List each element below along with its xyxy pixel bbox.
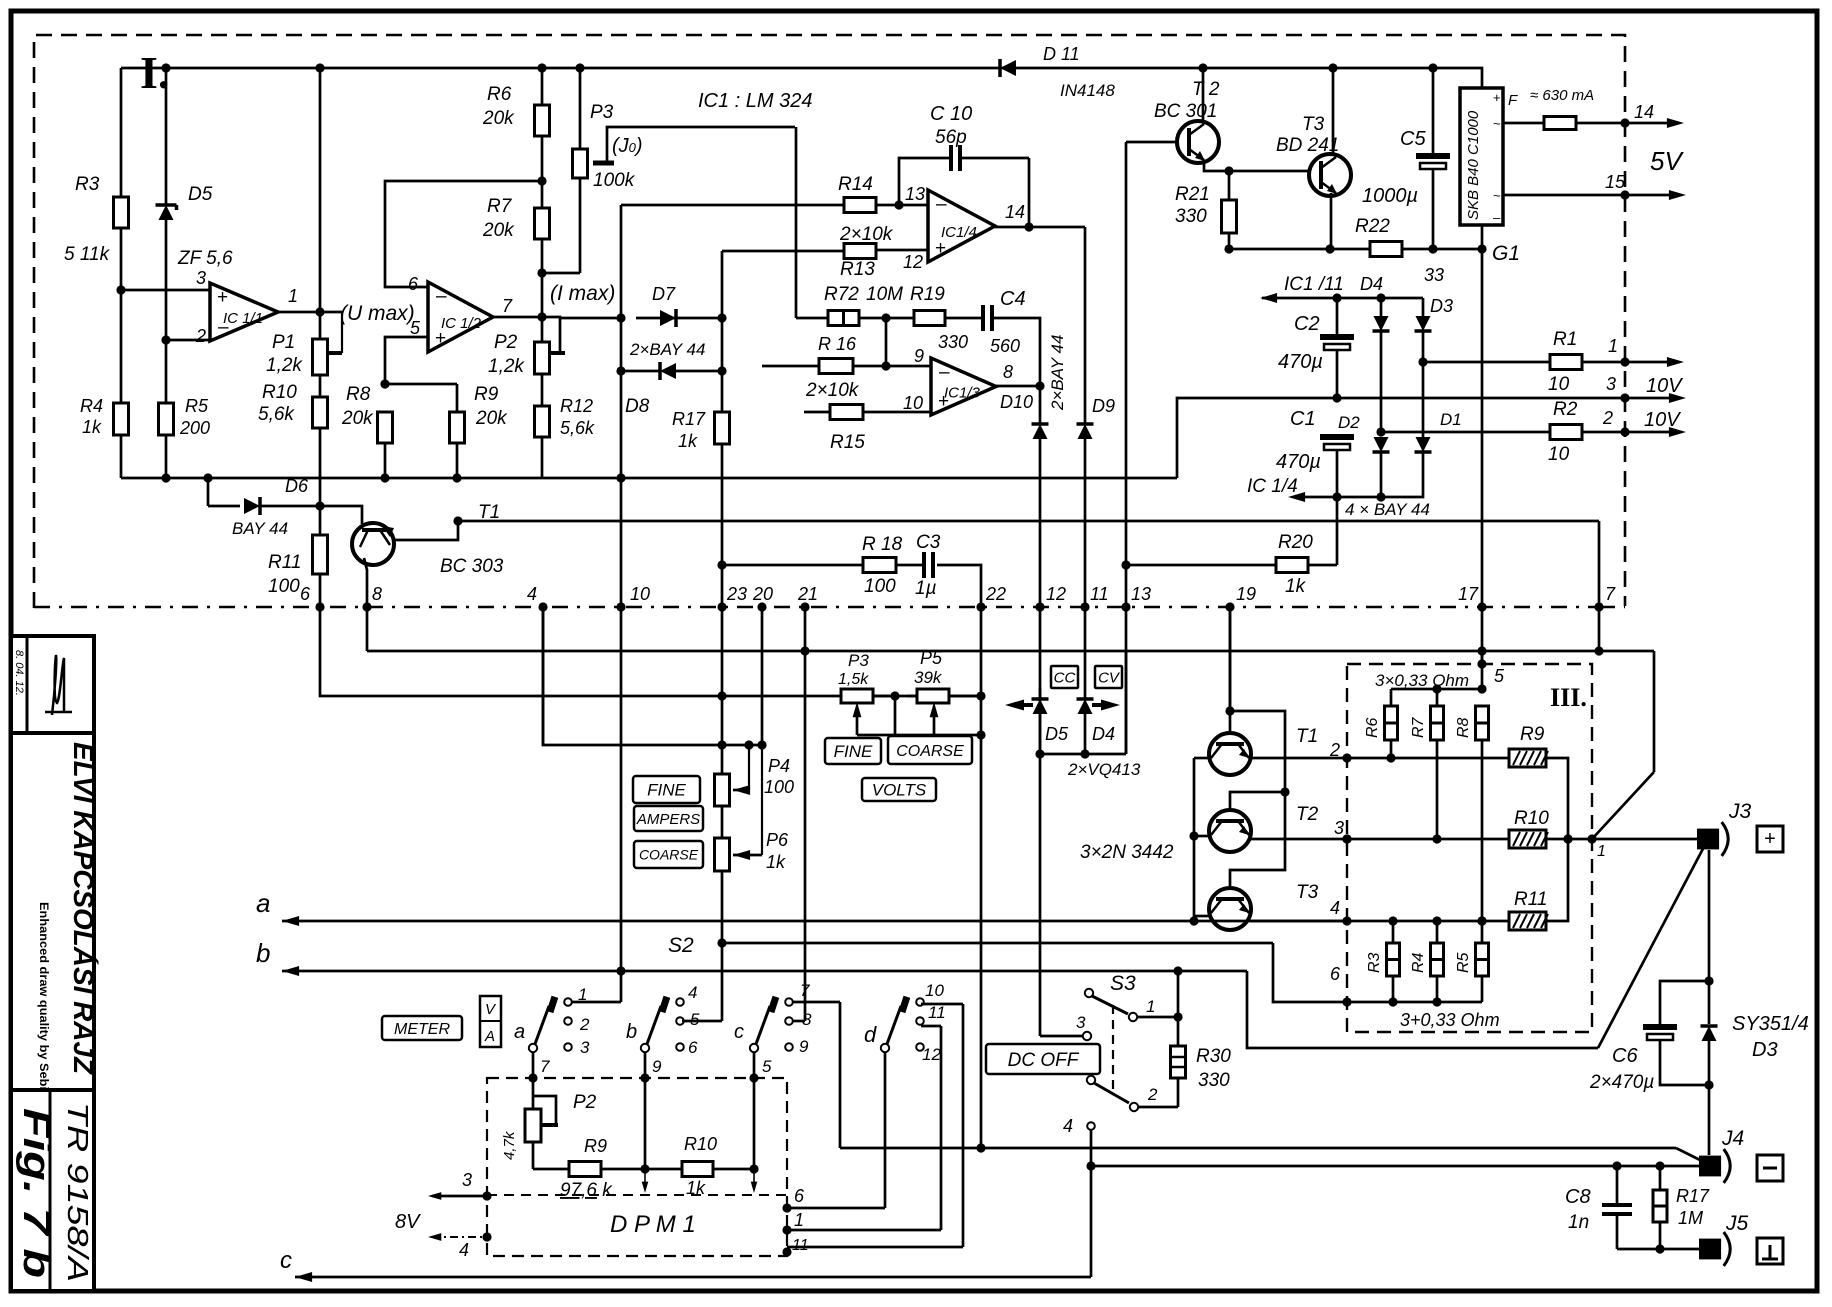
svg-text:D3: D3: [1752, 1039, 1778, 1061]
svg-text:~: ~: [1493, 116, 1501, 131]
svg-text:C1: C1: [1290, 408, 1316, 430]
svg-text:3×0,33 Ohm: 3×0,33 Ohm: [1375, 671, 1469, 690]
wire IC1/4 arrow row: [1247, 452, 1430, 519]
title text Enhanced draw quality by Sebi: [37, 902, 51, 1090]
svg-text:R7: R7: [487, 196, 513, 217]
svg-text:2×470µ: 2×470µ: [1589, 1072, 1654, 1093]
wire ground row: [121, 398, 1337, 483]
resistor R7: [482, 196, 550, 241]
wire C5 column: [1432, 68, 1435, 249]
wire S2b pole to pin9: [645, 1052, 662, 1078]
jack J3: [1697, 800, 1752, 856]
resistor R18 100: [717, 534, 924, 597]
resistor R4 033: [1410, 921, 1444, 1007]
resistor R11 hatched: [1509, 839, 1568, 930]
label CC box: [1051, 666, 1078, 688]
svg-text:1: 1: [1146, 997, 1155, 1016]
svg-text:330: 330: [1175, 206, 1207, 227]
svg-text:≈ 630 mA: ≈ 630 mA: [1530, 87, 1594, 104]
wire S2c contact8: [792, 1020, 805, 1023]
fuse F 630mA: [1508, 87, 1654, 130]
wire D8 row: [616, 366, 726, 375]
svg-text:T3: T3: [1296, 882, 1319, 903]
resistor R2 10: [1548, 399, 1681, 465]
node DPM pin11 out: [782, 1237, 808, 1257]
resistor R20 1k: [1121, 532, 1337, 597]
svg-text:R21: R21: [1175, 184, 1210, 205]
svg-text:5 11k: 5 11k: [64, 244, 111, 265]
svg-text:11: 11: [792, 1237, 809, 1254]
svg-text:13: 13: [905, 184, 925, 204]
wire R16 row: [762, 365, 931, 368]
wire base zigzag T3: [1230, 792, 1285, 899]
DPM1 dashed outline: [487, 1078, 787, 1256]
wire pin21 column: [800, 607, 809, 1021]
svg-text:P3: P3: [590, 102, 614, 123]
svg-text:22: 22: [985, 584, 1006, 604]
svg-text:11: 11: [1090, 584, 1109, 604]
op-amp IC1/3: [903, 346, 1013, 415]
label FINE box: [633, 776, 700, 803]
svg-text:IC 1/4: IC 1/4: [1247, 476, 1298, 497]
wire b to J3 bottom: [1247, 971, 1598, 1048]
svg-text:VOLTS: VOLTS: [872, 781, 927, 800]
wire S2d pole to DPM pin6: [884, 1052, 887, 1208]
node DPM pin7: [528, 1073, 537, 1082]
svg-text:J3: J3: [1728, 800, 1752, 823]
svg-text:1: 1: [794, 1210, 804, 1230]
node DPM pin6 out: [782, 1186, 885, 1213]
board I pin 10: [616, 584, 650, 612]
label COARSE box: [634, 841, 703, 868]
wire J5 row: [1617, 1244, 1702, 1253]
svg-text:6: 6: [794, 1186, 805, 1206]
svg-text:R10: R10: [262, 382, 297, 403]
board I pin 8: [362, 584, 382, 612]
svg-text:C2: C2: [1294, 313, 1320, 335]
svg-text:–: –: [436, 286, 447, 307]
resistor R72 10M: [796, 284, 903, 326]
svg-text:–: –: [1493, 210, 1501, 225]
resistor R22: [1355, 216, 1444, 285]
svg-text:1,2k: 1,2k: [266, 355, 303, 376]
svg-text:IN4148: IN4148: [1060, 81, 1115, 100]
label ground box: [1757, 1238, 1783, 1264]
svg-text:10: 10: [630, 584, 650, 604]
wire pin10 column: [616, 607, 625, 976]
label IC1 = LM324: [698, 90, 813, 112]
wire IC1/2 plus input: [380, 337, 428, 389]
svg-text:4: 4: [527, 584, 537, 604]
svg-text:20k: 20k: [475, 408, 508, 429]
svg-text:2: 2: [195, 326, 206, 346]
svg-text:R20: R20: [1278, 532, 1313, 553]
wire J3 row: [1563, 834, 1700, 860]
svg-text:d: d: [864, 1022, 877, 1047]
svg-text:TR 9158/A: TR 9158/A: [61, 1102, 93, 1282]
svg-text:c: c: [280, 1247, 292, 1274]
wire R2 row: [1381, 427, 1686, 437]
svg-text:20k: 20k: [482, 108, 515, 129]
svg-text:2×10k: 2×10k: [839, 224, 894, 245]
transistor T2 BC301: [1154, 79, 1220, 163]
svg-text:5V: 5V: [1650, 146, 1684, 176]
wire node5 into box: [1477, 651, 1486, 689]
wire D9 down: [1084, 439, 1087, 607]
wire pin20 column: [757, 607, 766, 750]
svg-text:33: 33: [1424, 265, 1444, 285]
wire row 15: [1503, 172, 1686, 200]
svg-text:R22: R22: [1355, 216, 1390, 237]
wire T1 collector to pin8: [364, 558, 367, 607]
svg-text:3: 3: [1076, 1013, 1086, 1032]
diode D5 CC: [1005, 688, 1069, 759]
wire pin13 column: [1125, 565, 1128, 754]
label 2xBAY44 vertical: [1048, 335, 1067, 411]
svg-text:T3: T3: [1302, 114, 1325, 135]
wire row b: [256, 938, 1247, 976]
svg-text:2: 2: [579, 1015, 590, 1034]
svg-text:1k: 1k: [82, 417, 102, 437]
svg-text:7: 7: [502, 296, 513, 316]
svg-text:R3: R3: [75, 174, 100, 195]
wire R11 row: [1347, 916, 1509, 925]
svg-text:1k: 1k: [686, 1178, 706, 1198]
wire IC1/2 output: [493, 317, 565, 353]
svg-text:b: b: [256, 938, 270, 968]
svg-text:AMPERS: AMPERS: [636, 811, 700, 828]
diode D3 SY351/4: [1701, 1013, 1809, 1155]
svg-text:1,5k: 1,5k: [838, 671, 869, 688]
op-amp IC1/4: [903, 184, 1025, 272]
svg-text:100: 100: [764, 777, 794, 797]
svg-text:56p: 56p: [935, 127, 967, 148]
svg-text:2×10k: 2×10k: [805, 380, 860, 401]
svg-text:14: 14: [1005, 202, 1025, 222]
label S2: [668, 934, 694, 957]
svg-text:METER: METER: [394, 1021, 450, 1038]
wire C1 to R20: [1336, 497, 1339, 565]
svg-text:12: 12: [903, 252, 923, 272]
resistor R8 033: [1455, 706, 1489, 926]
label minus box: [1757, 1155, 1783, 1181]
svg-text:a: a: [514, 1021, 525, 1043]
svg-text:C4: C4: [1000, 288, 1026, 310]
board III label: [1550, 683, 1587, 712]
svg-text:2: 2: [1329, 740, 1340, 760]
svg-text:8. 04. 12.: 8. 04. 12.: [13, 650, 25, 696]
wire S3 pin3: [1040, 688, 1091, 1040]
wire top bus: [121, 63, 1482, 88]
label plus box: [1757, 826, 1783, 852]
svg-text:P2: P2: [494, 332, 518, 353]
svg-text:1000µ: 1000µ: [1362, 185, 1418, 207]
wire pin22 column: [937, 565, 986, 1153]
wire T2 base: [1126, 142, 1177, 565]
resistor R5 033: [1455, 921, 1489, 1002]
svg-text:+: +: [1764, 828, 1776, 850]
svg-text:17: 17: [1458, 584, 1479, 604]
svg-text:19: 19: [1236, 584, 1256, 604]
wire S3 pin2: [1138, 1078, 1178, 1107]
svg-text:ZF 5,6: ZF 5,6: [177, 248, 233, 269]
resistor R15: [830, 405, 865, 454]
svg-text:1n: 1n: [1568, 1212, 1589, 1233]
svg-text:IC 1/1: IC 1/1: [223, 310, 263, 327]
svg-text:330: 330: [1198, 1070, 1230, 1091]
svg-text:12: 12: [922, 1045, 941, 1064]
svg-text:2×BAY 44: 2×BAY 44: [1048, 335, 1067, 411]
wire T2 emitter row 3: [1251, 818, 1352, 844]
svg-text:100: 100: [268, 576, 300, 597]
svg-text:R9: R9: [584, 1136, 607, 1156]
wire x722 column: [721, 318, 724, 412]
wire J3 funnel upper: [1592, 651, 1654, 839]
capacitor C3 1u: [915, 532, 941, 599]
resistor R17 1M: [1653, 1166, 1710, 1249]
wire S2c contact7: [792, 1002, 981, 1148]
wire x620 column: [620, 318, 623, 607]
label G1: [1492, 242, 1520, 265]
svg-text:330: 330: [938, 332, 968, 352]
svg-text:20k: 20k: [341, 408, 374, 429]
svg-text:R11: R11: [268, 552, 301, 573]
label 3plus033ohm: [1400, 1010, 1500, 1030]
svg-text:R8: R8: [346, 384, 371, 405]
node DPM pin1 out: [782, 1210, 804, 1235]
diode D1: [1415, 410, 1462, 452]
svg-text:3: 3: [196, 268, 206, 288]
svg-text:6: 6: [408, 274, 419, 294]
svg-text:1: 1: [1608, 336, 1618, 356]
wire T3 emitter: [1325, 193, 1334, 254]
svg-text:DC OFF: DC OFF: [1008, 1050, 1080, 1071]
svg-text:F: F: [1508, 92, 1518, 109]
svg-text:20: 20: [752, 584, 773, 604]
svg-text:13: 13: [1131, 584, 1151, 604]
svg-text:P1: P1: [272, 332, 295, 353]
svg-text:C3: C3: [916, 532, 941, 553]
svg-text:Enhanced draw quality by Sebi: Enhanced draw quality by Sebi: [37, 902, 51, 1090]
wire IC1/3 output: [996, 381, 1045, 390]
title block date text: [13, 650, 25, 696]
capacitor C2 470u: [1278, 298, 1354, 398]
svg-text:S2: S2: [668, 934, 694, 957]
label DC OFF box: [986, 1044, 1100, 1074]
svg-text:Fig. 7 b: Fig. 7 b: [15, 1108, 57, 1278]
wire T3 emitter row 4: [1251, 898, 1352, 926]
diode D9: [1077, 396, 1116, 439]
svg-text:4: 4: [1063, 1116, 1073, 1136]
svg-text:P4: P4: [768, 756, 790, 776]
wire R6R7 column: [537, 68, 546, 342]
svg-text:SKB B40 C1000: SKB B40 C1000: [1465, 110, 1482, 220]
wire pin17 column: [1481, 249, 1484, 664]
switch S2a: [514, 985, 590, 1057]
svg-text:c: c: [734, 1021, 744, 1043]
svg-text:R7: R7: [1410, 716, 1427, 738]
wire T1 emitter to row: [392, 516, 463, 540]
resistor R16: [818, 334, 857, 374]
svg-text:b: b: [626, 1021, 637, 1043]
svg-text:D4: D4: [1360, 274, 1383, 294]
svg-text:A: A: [484, 1028, 495, 1045]
wire IC1/3 minus link: [881, 318, 890, 371]
wire volts row: [873, 691, 981, 700]
potentiometer P2: [488, 332, 550, 377]
svg-text:4: 4: [688, 983, 697, 1002]
svg-text:C8: C8: [1565, 1186, 1591, 1208]
svg-text:5,6k: 5,6k: [258, 404, 295, 425]
svg-text:6: 6: [300, 584, 311, 604]
svg-text:D6: D6: [285, 476, 309, 496]
svg-text:10: 10: [903, 393, 923, 413]
wire pin12 column: [1039, 607, 1042, 688]
svg-text:21: 21: [797, 584, 818, 604]
svg-text:D8: D8: [625, 396, 650, 417]
svg-text:D9: D9: [1092, 396, 1115, 416]
svg-text:5: 5: [1494, 666, 1505, 686]
label VOLTS box: [862, 778, 936, 801]
svg-text:15: 15: [1605, 172, 1626, 192]
label Umax: [340, 302, 415, 325]
svg-text:8: 8: [1003, 362, 1013, 382]
switch S2d: [864, 981, 946, 1064]
svg-text:IC1/4: IC1/4: [941, 224, 977, 241]
label FINE box 2: [825, 738, 881, 764]
diode D6: [208, 476, 325, 538]
resistor R6 033: [1364, 689, 1398, 763]
wire pin5 drop: [751, 1078, 758, 1193]
wire 8V pin3: [428, 1170, 492, 1201]
svg-text:12: 12: [1046, 584, 1066, 604]
resistor R13: [722, 244, 928, 319]
wire T3 collector: [1332, 68, 1335, 154]
diode D4 CV: [1077, 688, 1121, 759]
capacitor C4 560: [945, 288, 1040, 386]
switch S3 pin4: [1063, 1116, 1096, 1171]
wire row6 zigzag: [722, 943, 1347, 1002]
zener diode D5: [156, 184, 233, 269]
svg-text:R9: R9: [1520, 724, 1545, 745]
board I pin 12: [1035, 584, 1066, 612]
svg-text:7: 7: [540, 1057, 550, 1076]
board I dashed outline: [34, 35, 1625, 608]
svg-text:1: 1: [288, 286, 298, 306]
svg-text:J4: J4: [1721, 1127, 1744, 1150]
wire pin19 column: [1229, 607, 1232, 711]
svg-text:14: 14: [1634, 102, 1654, 122]
title block signature: [45, 655, 72, 715]
svg-text:CV: CV: [1098, 669, 1121, 686]
resistor R10 hatched: [1509, 808, 1573, 848]
wire R9 row: [1347, 757, 1509, 760]
wire P3 column: [542, 68, 580, 273]
diode D2: [1338, 413, 1390, 452]
wire R678 top bus: [1391, 684, 1487, 693]
svg-text:SY351/4: SY351/4: [1732, 1013, 1809, 1035]
resistor R5: [159, 396, 211, 438]
wire J4 lower row: [1091, 1161, 1702, 1170]
wire IC1/4 output: [995, 222, 1085, 424]
wire D3D4 mid: [1376, 331, 1427, 497]
svg-text:+: +: [217, 287, 228, 308]
potentiometer P1: [266, 312, 342, 376]
resistor R4: [80, 396, 129, 437]
wire J3 funnel lower: [1598, 843, 1706, 1048]
svg-text:8: 8: [802, 1010, 812, 1029]
resistor R12: [535, 374, 596, 478]
resistor R3: [64, 174, 129, 265]
svg-text:5: 5: [690, 1010, 700, 1029]
svg-text:1k: 1k: [678, 431, 698, 451]
svg-text:R1: R1: [1553, 329, 1577, 350]
svg-text:1k: 1k: [766, 852, 786, 872]
svg-text:1µ: 1µ: [915, 578, 937, 599]
wire T1 emitter row 2: [1251, 740, 1352, 763]
svg-text:S3: S3: [1110, 972, 1136, 995]
svg-text:C 10: C 10: [930, 103, 972, 125]
svg-text:R11: R11: [1514, 889, 1547, 910]
diode D11: [1000, 44, 1115, 100]
label COARSE box 2: [888, 736, 972, 764]
label AMPERS box: [634, 806, 703, 831]
wire 8V pin4: [428, 1232, 492, 1260]
svg-text:(I max): (I max): [550, 282, 615, 305]
wire row 651: [367, 607, 1654, 656]
resistor R9 97.6k: [533, 1136, 650, 1201]
svg-text:ELVI KAPCSOLÁSI RAJZ: ELVI KAPCSOLÁSI RAJZ: [68, 742, 99, 1075]
wire J3 plus column: [1704, 850, 1713, 1024]
wire S2c pole to pin5: [754, 1052, 772, 1078]
svg-text:–: –: [936, 194, 947, 215]
svg-text:T1: T1: [1296, 726, 1318, 747]
board I pin 7: [1594, 584, 1616, 612]
svg-text:a: a: [256, 888, 270, 918]
svg-text:R 18: R 18: [862, 534, 903, 555]
svg-text:470µ: 470µ: [1276, 451, 1321, 473]
svg-text:P3: P3: [848, 651, 869, 670]
svg-text:8: 8: [372, 584, 382, 604]
resistor R17 1k: [672, 409, 730, 607]
resistor R9 hatched: [1509, 724, 1568, 838]
svg-text:1: 1: [1597, 843, 1606, 860]
svg-text:3: 3: [1334, 818, 1344, 838]
svg-text:P5: P5: [920, 648, 943, 668]
svg-text:3: 3: [462, 1170, 472, 1190]
switch S2b: [626, 983, 700, 1057]
label 3x033ohm top: [1375, 666, 1505, 690]
wire P2 to R9: [532, 1142, 535, 1169]
resistor R19 330: [886, 284, 968, 352]
node IC1/1 pin2 junction: [161, 335, 170, 344]
svg-text:10V: 10V: [1646, 375, 1683, 397]
diode D4: [1360, 274, 1390, 331]
svg-text:–: –: [939, 362, 950, 383]
resistor R14: [838, 174, 904, 213]
node DPM pin9: [640, 1073, 649, 1082]
svg-text:6: 6: [688, 1038, 698, 1057]
svg-text:R72: R72: [824, 284, 859, 305]
svg-text:C5: C5: [1400, 128, 1426, 150]
board I pin 13: [1121, 584, 1151, 612]
svg-text:FINE: FINE: [834, 742, 873, 761]
svg-text:1M: 1M: [1678, 1208, 1703, 1228]
wire pin9 drop: [642, 1078, 649, 1193]
svg-text:20k: 20k: [482, 220, 515, 241]
board I pin 23: [717, 584, 747, 612]
wire P3 wiper drop: [795, 127, 798, 318]
